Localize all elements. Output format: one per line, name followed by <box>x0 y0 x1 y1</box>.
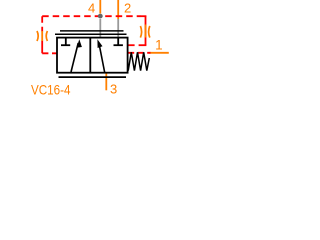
svg-text:VC16-4: VC16-4 <box>31 82 71 98</box>
svg-text:1: 1 <box>155 38 163 53</box>
svg-text:4: 4 <box>88 1 95 16</box>
svg-text:2: 2 <box>124 1 131 16</box>
svg-text:3: 3 <box>110 82 117 97</box>
